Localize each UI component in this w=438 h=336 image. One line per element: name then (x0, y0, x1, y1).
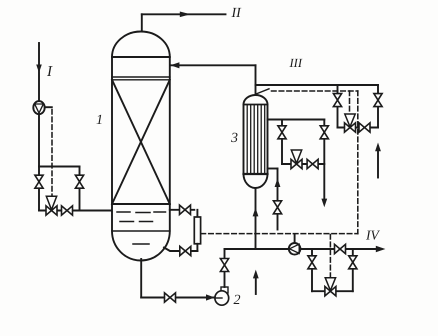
wire signal stub from FI (45, 106, 52, 108)
wire gauge lower stub (196, 244, 198, 251)
wire feed line I below instrument (38, 114, 40, 210)
valve on gauge top connection (180, 205, 186, 214)
valve block on station III bottom (359, 123, 365, 132)
wire dashed signal FI to control valve (51, 110, 53, 197)
instrument FI flow indicator circle on line I (33, 101, 44, 114)
wire IV bypass bottom horizontal (312, 290, 353, 292)
level gauge LG body (194, 217, 200, 244)
pump P2 inner radius line (216, 297, 223, 299)
wire bypass right vertical (79, 167, 81, 211)
wire station III left vertical (337, 85, 339, 128)
valve on IV bypass left vertical (308, 256, 316, 262)
control valve FV on feed line (46, 206, 52, 215)
wire overhead line II horizontal (142, 13, 226, 15)
control valve TV1 actuator (345, 114, 355, 127)
wire bypass top horizontal (39, 166, 80, 168)
valve on tube-side line (273, 201, 281, 208)
valve block on line IV (335, 244, 341, 253)
control valve FV actuator (46, 196, 56, 210)
column bottom tangent line (112, 230, 170, 232)
wire bottoms product line IV (225, 248, 382, 250)
arrow product line IV end (376, 246, 386, 253)
wire steam inlet riser with arrow (377, 151, 379, 178)
control valve TV2 actuator (291, 150, 301, 163)
arrow steam flow up (375, 143, 381, 152)
wire bypass bottom horizontal (282, 163, 324, 165)
arrow flow up to exchanger (253, 208, 259, 217)
svg-text:IV: IV (365, 228, 380, 243)
control valve LV on IV bypass (325, 287, 331, 296)
heat exchanger E3 shell (244, 95, 268, 188)
column packing bottom line (112, 203, 170, 205)
instrument FT inner triangle (290, 244, 300, 253)
wire IV bypass right vertical (352, 249, 354, 291)
svg-text:III: III (289, 56, 303, 70)
svg-text:1: 1 (96, 113, 103, 128)
valve block on feed bottom line (62, 206, 68, 215)
wire exchanger tube-side nozzle stub (268, 168, 278, 170)
control valve TV2 on bypass bottom (291, 159, 297, 168)
valve on pump suction (165, 293, 171, 302)
wire dashed level signal (201, 233, 358, 235)
arrow flow up into exchanger (275, 178, 281, 187)
wire gauge upper stub (196, 210, 198, 217)
wire temperature tap diagonal (256, 89, 269, 94)
exchanger tube 5 (260, 106, 262, 174)
wire reflux return line into column (171, 64, 256, 66)
column packing X diagonal 1 (112, 80, 170, 204)
column C1 shell (112, 32, 170, 261)
wire FT signal stub (294, 235, 296, 243)
wire column bottoms outlet vertical (140, 259, 142, 298)
column liquid level dashes row2 (120, 221, 134, 223)
svg-text:2: 2 (234, 293, 241, 308)
instrument FT circle on line IV (289, 243, 301, 255)
wire bypass right vertical (323, 120, 325, 199)
wire feed line I vertical top (38, 43, 40, 102)
wire station III bottom horizontal (338, 127, 379, 129)
wire dashed main signal vertical (357, 91, 359, 234)
wire pump discharge vertical (224, 249, 226, 287)
arrow external feed up (253, 270, 259, 279)
wire dashed signal along top (272, 90, 358, 92)
wire IV bypass left vertical (311, 249, 313, 291)
column liquid level dashes row1 (117, 211, 130, 213)
wire riser to exchanger bottom (255, 188, 257, 249)
wire tube-side inlet vertical (277, 169, 279, 230)
svg-text:II: II (231, 6, 243, 21)
valve on pump discharge (220, 259, 228, 266)
wire gauge top connection (170, 209, 195, 211)
svg-text:I: I (46, 64, 53, 80)
valve on bypass right vertical (320, 126, 328, 133)
column packing top line (112, 79, 170, 81)
wire exchanger shell outlet to bypass station (268, 119, 325, 121)
exchanger bottom tubesheet (244, 173, 268, 175)
valve on station III right vertical (374, 94, 382, 101)
exchanger top tubesheet (244, 104, 268, 106)
column packing X diagonal 2 (112, 80, 170, 204)
exchanger tube 4 (257, 106, 259, 174)
wire dashed drop to control valve TV (349, 91, 351, 114)
valve on bypass left vertical (278, 126, 286, 133)
wire bypass left vertical (281, 120, 283, 165)
exchanger tube 6 (264, 106, 266, 174)
arrow flow direction on line I (36, 65, 42, 73)
valve bypass vertical (75, 175, 83, 182)
instrument FI inner triangle (35, 104, 44, 113)
valve on IV bypass right vertical (349, 256, 357, 262)
column liquid dash in bottom head (133, 243, 149, 245)
valve block on feed vertical (35, 175, 43, 182)
arrow flow direction on line II (180, 12, 191, 18)
wire external feed stub with arrow (255, 278, 257, 295)
arrow reflux into column (170, 62, 179, 68)
wire riser from exchanger top (255, 65, 257, 96)
control valve LV actuator (325, 278, 335, 291)
pump P2 casing (221, 287, 228, 293)
valve on gauge bottom connection (180, 246, 186, 255)
control valve TV1 on station III (345, 123, 351, 132)
column tray band line (112, 76, 170, 78)
exchanger tube 3 (253, 106, 255, 174)
wire pump suction horizontal (141, 297, 215, 299)
wire header III (256, 84, 379, 86)
valve on station III left vertical (333, 94, 341, 101)
wire feed bottom horizontal to column (39, 210, 113, 212)
pump P2 circle (215, 291, 229, 305)
wire station III right vertical (377, 85, 379, 128)
arrow flow into pump (206, 294, 215, 300)
wire gauge bottom connection (164, 248, 197, 252)
valve block on bypass bottom (307, 159, 313, 168)
exchanger tube 1 (246, 106, 248, 174)
wire overhead vapour riser (141, 14, 143, 31)
wire dashed signal to LV (329, 235, 331, 278)
arrow coolant outlet down (321, 199, 327, 208)
column tangent line top (112, 56, 170, 58)
exchanger tube 2 (250, 106, 252, 174)
svg-text:3: 3 (230, 131, 238, 146)
